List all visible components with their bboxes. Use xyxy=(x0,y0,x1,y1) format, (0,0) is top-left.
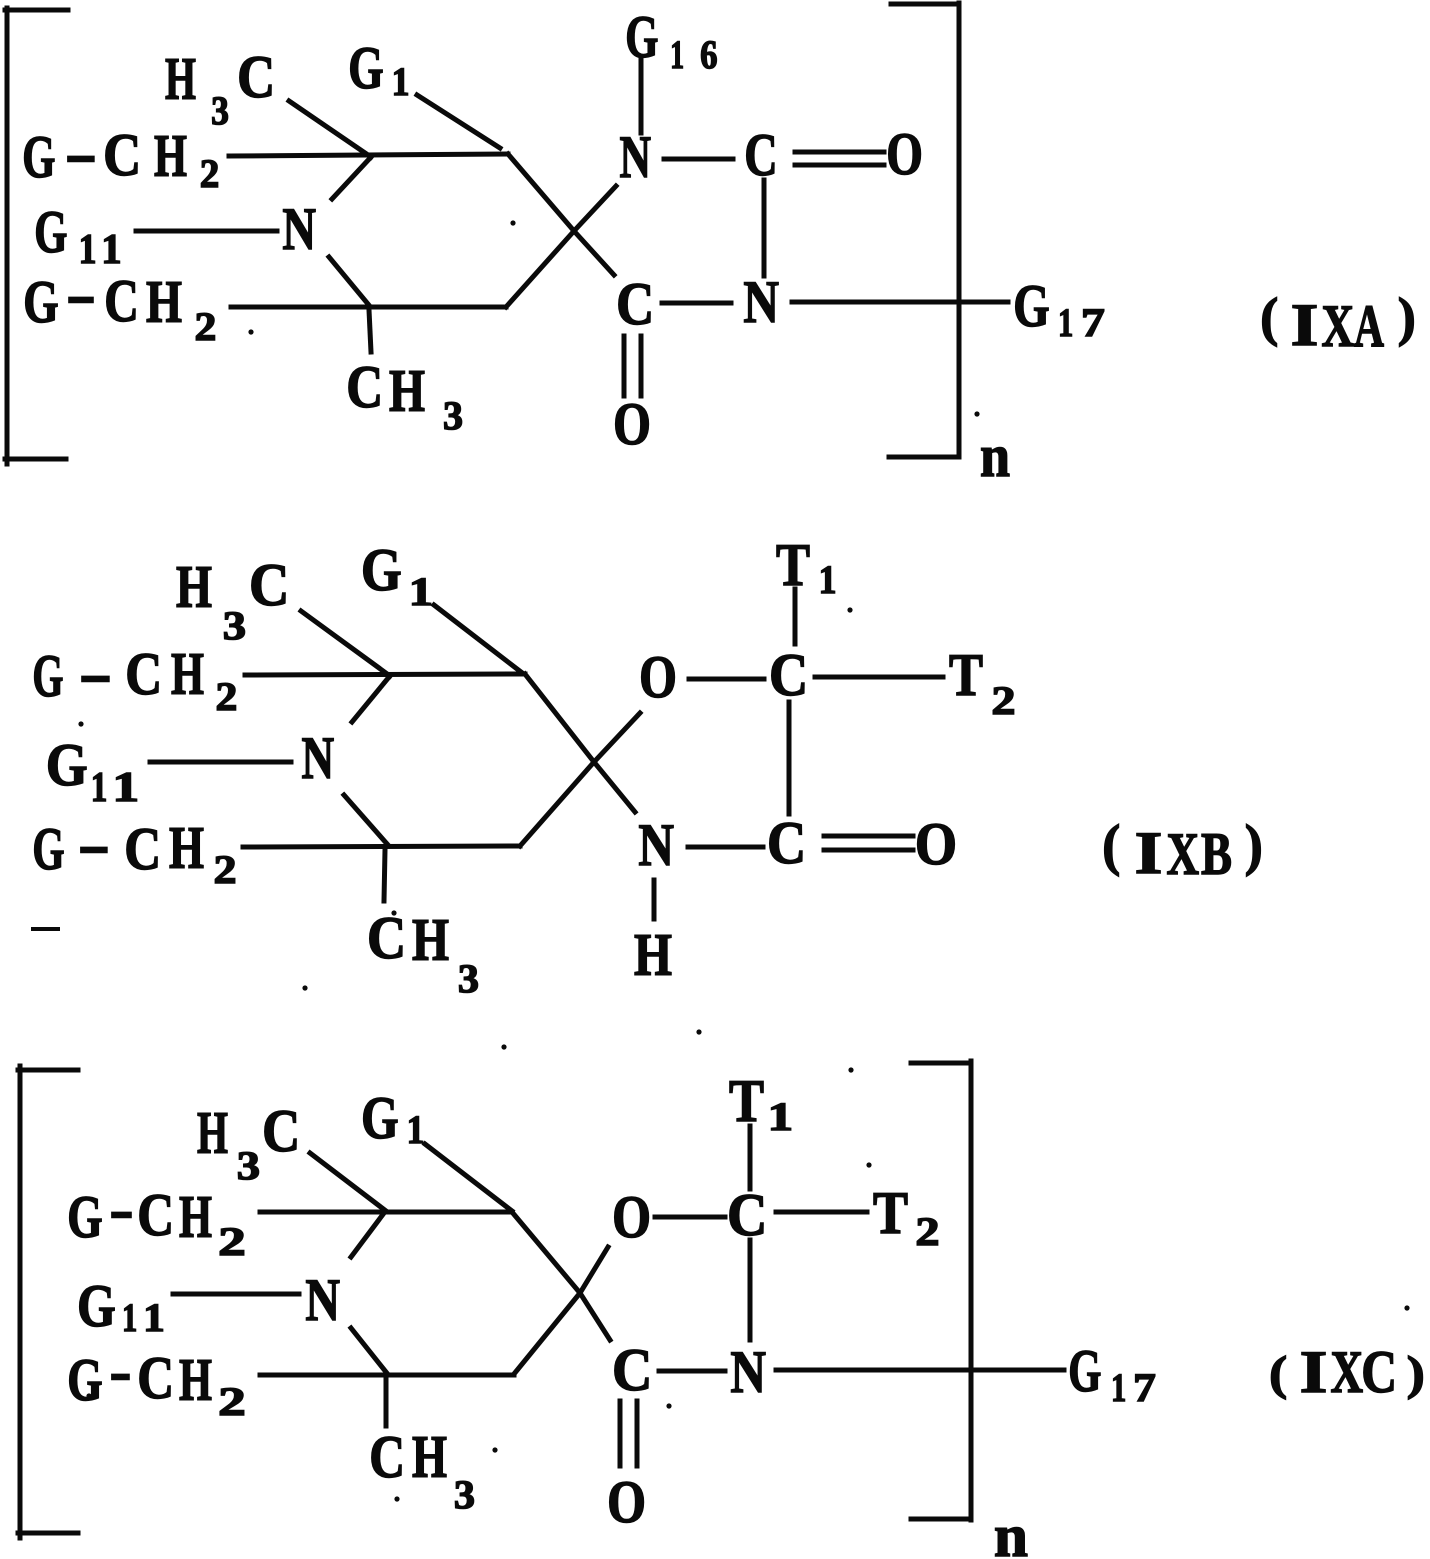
substituent G1 (IXC) xyxy=(361,1085,424,1152)
bond C-N (IXC) xyxy=(659,1369,725,1374)
G-CH2 arm bottom (IXB) xyxy=(32,811,236,892)
double bond C=O top (IXA) xyxy=(795,152,884,165)
svg-text:B: B xyxy=(1201,821,1232,887)
N-H hydrogen (IXB) xyxy=(634,922,672,988)
substituent G17 (IXC) xyxy=(1068,1338,1156,1410)
svg-text:(: ( xyxy=(1269,1347,1287,1400)
svg-text:6: 6 xyxy=(700,32,717,77)
svg-text:H: H xyxy=(179,1347,212,1413)
svg-text:G: G xyxy=(32,816,64,882)
svg-text:O: O xyxy=(915,811,957,877)
hydantoin carbonyl C2 (IXA) xyxy=(744,122,777,188)
bond N-H (IXB) xyxy=(652,880,657,919)
svg-text:C: C xyxy=(137,1345,174,1411)
carbonyl O (IXC) xyxy=(607,1469,646,1535)
bond T1-C (IXC) xyxy=(748,1126,753,1189)
svg-text:C: C xyxy=(769,642,808,708)
substituent T1 (IXB) xyxy=(776,532,837,602)
svg-text:C: C xyxy=(104,268,139,334)
svg-text:H: H xyxy=(412,907,449,973)
bond G1-C3 (IXA) xyxy=(417,95,500,148)
svg-text:-: - xyxy=(109,1176,133,1242)
right bracket ] (IXC) xyxy=(911,1061,971,1520)
svg-text:3: 3 xyxy=(223,603,246,648)
svg-text:1: 1 xyxy=(112,765,139,811)
svg-text:H: H xyxy=(146,269,182,335)
svg-text:1: 1 xyxy=(409,569,433,614)
svg-text:2: 2 xyxy=(218,1379,246,1424)
piperidine N (IXC) xyxy=(305,1267,340,1333)
svg-text:G: G xyxy=(22,124,55,190)
svg-text:1: 1 xyxy=(670,32,684,77)
substituent G11 (IXB) xyxy=(46,732,139,811)
bond O-C (IXB) xyxy=(689,677,764,682)
svg-text:1: 1 xyxy=(1058,300,1073,345)
substituent G11 (IXC) xyxy=(77,1273,165,1340)
left bracket [ (IXA) xyxy=(5,8,68,464)
bond C-T2 (IXC) xyxy=(776,1210,867,1215)
svg-text:-: - xyxy=(65,120,97,186)
ring N (IXC) xyxy=(730,1339,766,1405)
substituent G11 (IXA) xyxy=(34,199,121,273)
svg-text:C: C xyxy=(369,1424,405,1490)
bond C-N ring (IXC) xyxy=(748,1240,753,1340)
bond H3C-C2 (IXC) xyxy=(310,1153,386,1211)
piperidine N (IXA) xyxy=(282,196,316,262)
methyl H3C (IXC) xyxy=(197,1098,300,1188)
scan specks xyxy=(86,1067,1409,1501)
formula label (IXC) xyxy=(1269,1339,1425,1405)
bond C2-N (IXB) xyxy=(352,677,389,722)
svg-text:C: C xyxy=(103,122,141,188)
svg-text:2: 2 xyxy=(991,678,1015,723)
svg-text:(: ( xyxy=(1102,814,1120,877)
svg-text:1: 1 xyxy=(101,227,121,273)
bond C6-CH3 (IXB) xyxy=(384,850,385,901)
G-CH2 arm top (IXA) xyxy=(22,120,219,196)
svg-text:N: N xyxy=(302,725,335,791)
G-CH2 arm top (IXC) xyxy=(67,1176,246,1264)
svg-text:G: G xyxy=(1013,273,1049,339)
bond N-C6 (IXA) xyxy=(329,257,368,304)
svg-text:H: H xyxy=(176,554,212,620)
bond G1-C3 (IXC) xyxy=(425,1144,512,1211)
hydantoin carbonyl C4 (IXA) xyxy=(616,271,654,337)
bond C2-N (IXA) xyxy=(332,157,371,199)
svg-text:O: O xyxy=(613,391,651,457)
bond CH2-C2-C3 top edge (IXB) xyxy=(245,674,525,675)
svg-text:3: 3 xyxy=(443,393,463,438)
bond O-C (IXC) xyxy=(655,1215,725,1220)
svg-text:G: G xyxy=(32,643,63,709)
bond C-N ring (IXA) xyxy=(762,180,767,276)
svg-text:C: C xyxy=(346,354,383,420)
carbonyl C (IXB) xyxy=(767,810,806,876)
svg-text:C: C xyxy=(262,1098,300,1164)
svg-text:-: - xyxy=(78,811,110,877)
bond H3C-C2 (IXA) xyxy=(289,101,371,157)
substituent G16 (IXA) xyxy=(625,4,717,77)
bond C5-spiro-N (IXA) xyxy=(506,186,616,307)
carbonyl C (IXC) xyxy=(612,1337,652,1403)
repeat-index n (IXA) xyxy=(980,423,1010,489)
svg-text:I: I xyxy=(1291,292,1319,358)
oxazolidine O (IXB) xyxy=(639,644,677,710)
bond C-N bottom (IXA) xyxy=(662,301,731,306)
svg-text:2: 2 xyxy=(216,674,238,719)
bond CH2-C2-C3 top edge (IXC) xyxy=(260,1210,512,1215)
bond G11-N (IXA) xyxy=(136,229,277,234)
svg-text:N: N xyxy=(620,124,652,190)
bond G1-C3 (IXB) xyxy=(434,605,521,672)
svg-text:G: G xyxy=(77,1273,116,1339)
svg-text:n: n xyxy=(994,1503,1028,1559)
oxazolidine C2 (IXC) xyxy=(727,1182,767,1248)
double bond C=O (IXB) xyxy=(824,836,913,850)
svg-text:2: 2 xyxy=(195,304,217,349)
svg-text:H: H xyxy=(165,46,196,112)
substituent G17 (IXA) xyxy=(1013,273,1105,345)
svg-text:C: C xyxy=(367,905,406,971)
svg-text:C: C xyxy=(767,810,806,876)
svg-text:1: 1 xyxy=(819,557,837,602)
bond C5-spiro-O (IXB) xyxy=(520,713,640,846)
double bond C=O (IXC) xyxy=(620,1401,637,1466)
bond G11-N (IXC) xyxy=(173,1292,299,1297)
bond CH2-C6-C5 bottom edge (IXA) xyxy=(231,305,506,310)
bond C5-spiro-O (IXC) xyxy=(514,1247,608,1374)
hydantoin N3 (IXA) xyxy=(743,269,779,335)
bond N-C6 (IXB) xyxy=(344,795,388,845)
svg-text:H: H xyxy=(634,922,672,988)
oxazolidine O (IXC) xyxy=(612,1184,651,1250)
substituent T2 (IXC) xyxy=(873,1180,940,1254)
svg-text:G: G xyxy=(361,1085,399,1151)
svg-text:I: I xyxy=(1300,1339,1328,1405)
svg-text:1: 1 xyxy=(143,1295,165,1340)
substituent T2 (IXB) xyxy=(949,642,1016,723)
svg-text:N: N xyxy=(282,196,316,262)
methyl CH3 (IXA) xyxy=(346,354,463,438)
svg-text:1: 1 xyxy=(407,1107,425,1152)
svg-text:C: C xyxy=(727,1182,767,1248)
svg-text:-: - xyxy=(110,1338,132,1404)
carbonyl O top (IXA) xyxy=(886,121,923,187)
svg-text:1: 1 xyxy=(392,59,410,104)
svg-text:T: T xyxy=(873,1180,908,1246)
svg-text:): ) xyxy=(1407,1347,1425,1400)
svg-text:): ) xyxy=(1245,814,1263,877)
methyl H3C (IXA) xyxy=(165,44,275,133)
methyl CH3 (IXB) xyxy=(367,905,479,1001)
svg-text:C: C xyxy=(237,44,275,110)
svg-text:C: C xyxy=(744,122,777,188)
oxazolidine C2 (IXB) xyxy=(769,642,808,708)
repeat-index n (IXC) xyxy=(994,1503,1028,1559)
svg-text:O: O xyxy=(639,644,677,710)
bond G11-N (IXB) xyxy=(150,760,291,765)
svg-text:C: C xyxy=(125,641,162,707)
bond C3-spiro-C (IXC) xyxy=(512,1212,610,1340)
bond N-C (IXA) xyxy=(664,157,733,162)
G-CH2 arm bottom (IXA) xyxy=(23,261,216,349)
svg-text:C: C xyxy=(124,816,161,882)
svg-text:-: - xyxy=(79,640,112,706)
svg-text:C: C xyxy=(616,271,654,337)
bond C3-spiro-C (IXA) xyxy=(508,154,614,275)
bond C2-N (IXC) xyxy=(351,1213,384,1257)
svg-text:O: O xyxy=(607,1469,646,1535)
substituent G1 (IXA) xyxy=(348,35,409,104)
hydantoin N1 (IXA) xyxy=(620,124,652,190)
scan specks xyxy=(248,220,979,416)
bond G16-N (IXA) xyxy=(639,60,644,133)
G-CH2 arm bottom (IXC) xyxy=(67,1338,246,1424)
substituent G1 (IXB) xyxy=(361,537,433,614)
svg-text:T: T xyxy=(949,642,983,708)
svg-text:(: ( xyxy=(1260,287,1278,347)
svg-text:T: T xyxy=(729,1068,764,1134)
bond C2-C4 ring (IXB) xyxy=(787,702,792,814)
formula label (IXA) xyxy=(1260,287,1416,359)
svg-text:2: 2 xyxy=(214,847,237,892)
svg-text:3: 3 xyxy=(237,1143,260,1188)
svg-text:C: C xyxy=(249,552,289,618)
svg-text:-: - xyxy=(66,261,96,327)
svg-text:X: X xyxy=(1167,821,1200,887)
formula label (IXB) xyxy=(1102,814,1263,887)
svg-text:1: 1 xyxy=(1111,1365,1126,1410)
svg-text:1: 1 xyxy=(91,765,108,811)
svg-text:3: 3 xyxy=(458,956,479,1001)
svg-text:2: 2 xyxy=(915,1209,939,1254)
svg-text:X: X xyxy=(1322,293,1355,359)
svg-text:H: H xyxy=(389,358,425,424)
double bond C=O bottom (IXA) xyxy=(624,336,641,396)
svg-text:O: O xyxy=(612,1184,651,1250)
svg-text:2: 2 xyxy=(200,151,220,196)
bond CH2-C6-C5 bottom edge (IXC) xyxy=(260,1373,514,1378)
svg-text:H: H xyxy=(171,641,204,707)
svg-text:G: G xyxy=(1068,1338,1101,1404)
bond T1-C (IXB) xyxy=(793,589,798,644)
scan specks xyxy=(33,607,853,1049)
svg-text:O: O xyxy=(886,121,923,187)
substituent T1 (IXC) xyxy=(729,1068,793,1139)
svg-text:G: G xyxy=(361,537,402,603)
methyl CH3 (IXC) xyxy=(369,1424,475,1517)
svg-text:X: X xyxy=(1331,1339,1364,1405)
bond C6-CH3 (IXA) xyxy=(369,310,371,352)
bond CH2-C2-C3 top edge (IXA) xyxy=(229,154,508,156)
svg-text:H: H xyxy=(169,815,204,881)
svg-text:G: G xyxy=(67,1184,102,1250)
bond N-C (IXB) xyxy=(688,845,763,850)
svg-text:C: C xyxy=(137,1182,174,1248)
svg-text:N: N xyxy=(730,1339,766,1405)
G-CH2 arm top (IXB) xyxy=(32,640,237,719)
svg-text:1: 1 xyxy=(122,1295,137,1340)
bond N-G17 (IXA) xyxy=(792,300,1008,305)
svg-text:C: C xyxy=(612,1337,652,1403)
bond C3-spiro-N (IXB) xyxy=(525,674,635,812)
bond C-T2 (IXB) xyxy=(815,675,943,680)
bond N-C6 (IXC) xyxy=(351,1328,386,1372)
svg-text:7: 7 xyxy=(1081,300,1105,345)
svg-text:N: N xyxy=(743,269,779,335)
svg-text:N: N xyxy=(305,1267,340,1333)
svg-text:A: A xyxy=(1354,293,1384,359)
svg-text:G: G xyxy=(348,35,383,101)
svg-text:2: 2 xyxy=(218,1219,246,1264)
carbonyl O bottom (IXA) xyxy=(613,391,651,457)
svg-text:7: 7 xyxy=(1133,1365,1156,1410)
ring N-H nitrogen (IXB) xyxy=(638,812,674,878)
svg-text:3: 3 xyxy=(211,88,229,133)
svg-text:I: I xyxy=(1135,820,1163,886)
bond H3C-C2 (IXB) xyxy=(301,611,390,676)
svg-text:N: N xyxy=(638,812,674,878)
svg-text:H: H xyxy=(179,1184,212,1250)
svg-text:G: G xyxy=(46,732,88,798)
bond C6-CH3 (IXC) xyxy=(384,1378,389,1426)
svg-text:C: C xyxy=(1361,1339,1397,1405)
bond CH2-C6-C5 bottom edge (IXB) xyxy=(243,846,520,847)
svg-text:H: H xyxy=(154,123,187,189)
left bracket [ (IXC) xyxy=(18,1066,78,1538)
right bracket ] (IXA) xyxy=(889,3,959,457)
piperidine N (IXB) xyxy=(302,725,335,791)
svg-text:G: G xyxy=(34,199,67,265)
svg-text:G: G xyxy=(23,269,58,335)
svg-text:1: 1 xyxy=(768,1094,794,1139)
svg-text:): ) xyxy=(1398,287,1416,347)
svg-text:H: H xyxy=(412,1424,447,1490)
svg-text:3: 3 xyxy=(454,1472,475,1517)
svg-text:n: n xyxy=(980,423,1010,489)
bond N-G17 (IXC) xyxy=(776,1368,1064,1373)
svg-text:H: H xyxy=(197,1100,228,1166)
svg-text:G: G xyxy=(67,1347,102,1413)
methyl H3C (IXB) xyxy=(176,552,289,648)
carbonyl O (IXB) xyxy=(915,811,957,877)
